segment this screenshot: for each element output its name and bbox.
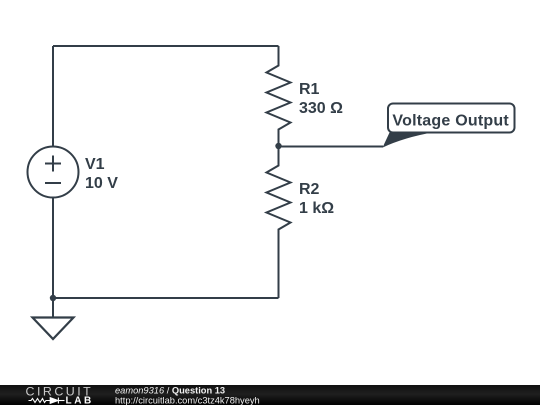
label R1 value — [299, 81, 343, 117]
logo resistor-diode symbol — [29, 398, 65, 404]
svg-text:V1: V1 — [85, 156, 105, 173]
svg-text:LAB: LAB — [66, 396, 94, 405]
flag Voltage Output — [383, 104, 515, 148]
wire to voltage output flag — [279, 146, 384, 148]
svg-text:R2: R2 — [299, 181, 320, 198]
wire left lower (V1 to bottom) — [52, 198, 54, 299]
label V1 value — [85, 156, 118, 192]
ground — [33, 298, 74, 339]
node junction dot bottom-left — [50, 295, 56, 301]
svg-text:http://circuitlab.com/c3tz4k78: http://circuitlab.com/c3tz4k78hyeyh — [115, 395, 260, 405]
svg-text:eamon9316 / Question 13: eamon9316 / Question 13 — [115, 386, 225, 396]
voltage source V1 — [28, 147, 79, 198]
wire top from V1 to R1 — [53, 45, 279, 47]
svg-text:10 V: 10 V — [85, 175, 118, 192]
resistor R2 — [267, 146, 291, 298]
footer bar — [0, 385, 540, 405]
node junction dot middle — [275, 143, 281, 149]
svg-text:1 kΩ: 1 kΩ — [299, 200, 334, 217]
svg-text:R1: R1 — [299, 81, 320, 98]
wire bottom — [53, 297, 279, 299]
resistor R1 — [267, 46, 291, 146]
wire left upper (V1 to top) — [52, 46, 54, 147]
svg-text:330 Ω: 330 Ω — [299, 100, 343, 117]
svg-text:Voltage Output: Voltage Output — [392, 112, 509, 129]
label R2 value — [299, 181, 334, 217]
